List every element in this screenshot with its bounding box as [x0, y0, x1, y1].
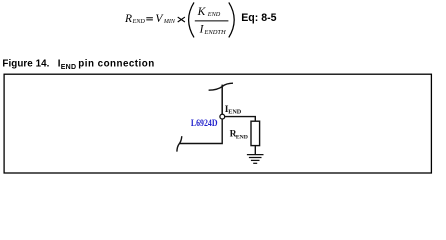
wire break symbol (bottom-left): [177, 136, 182, 151]
svg-text:END: END: [61, 64, 76, 71]
svg-text:END: END: [132, 18, 146, 25]
equation fraction numerator K_END: [197, 6, 221, 18]
wire: IEND node down and left (into L6924D): [179, 119, 222, 143]
wire: resistor REND to ground: [254, 146, 256, 155]
wire break symbol (top): [209, 83, 233, 90]
svg-text:END: END: [236, 135, 248, 141]
figure frame box: [4, 74, 431, 173]
svg-text:pin connection: pin connection: [78, 59, 154, 70]
svg-text:R: R: [124, 13, 132, 25]
resistor REND (box symbol): [251, 121, 260, 145]
svg-text:L6924D: L6924D: [191, 119, 218, 129]
ground (earth symbol, 4 bars): [247, 155, 264, 164]
node: IEND pin (open circle): [220, 114, 225, 119]
wire: IEND node to resistor REND (horizontal then down): [225, 117, 255, 122]
svg-text:ENDTH: ENDTH: [203, 29, 226, 36]
label REND (value/ref): [230, 129, 248, 140]
equation big left paren: [189, 2, 194, 37]
svg-text:MIN: MIN: [163, 19, 176, 25]
label IEND (pin name): [225, 105, 242, 116]
equation big right paren: [229, 2, 234, 37]
svg-text:END: END: [207, 11, 221, 18]
wire: IEND pin stub from inside L6924D (vertical, top): [221, 85, 223, 114]
label L6924D (IC name): [191, 119, 218, 129]
equation fraction denominator I_ENDTH: [199, 24, 226, 37]
svg-text:END: END: [228, 109, 242, 116]
svg-text:Eq: 8-5: Eq: 8-5: [241, 12, 276, 24]
equation main line: R_END = V_MIN x: [124, 13, 185, 25]
svg-text:K: K: [197, 6, 207, 18]
equation fraction bar: [195, 20, 229, 22]
figure caption: Figure 14. IEND pin connection: [2, 59, 154, 71]
svg-text:Figure 14.: Figure 14.: [2, 59, 49, 70]
